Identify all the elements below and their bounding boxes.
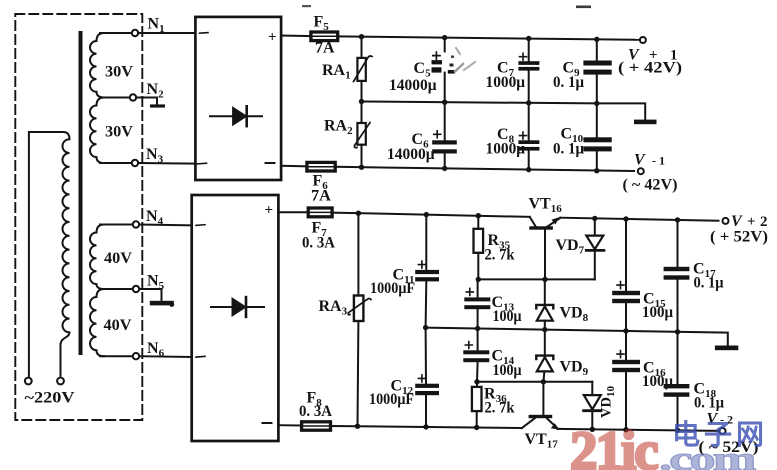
wire N4 tap bbox=[100, 224, 133, 226]
svg-text:1000μ: 1000μ bbox=[486, 74, 526, 91]
primary terminal b bbox=[57, 378, 64, 385]
fuse F7 bbox=[308, 208, 332, 217]
node bottom rail2 at C12 bbox=[423, 424, 428, 429]
wire top rail 2 right of VT16 bbox=[560, 218, 718, 221]
svg-text:40V: 40V bbox=[104, 317, 132, 334]
capacitor C17 bbox=[664, 220, 690, 332]
thermistor RA3 bbox=[348, 213, 371, 426]
wire UR1- to F6 bbox=[281, 165, 307, 168]
svg-text:VD9: VD9 bbox=[560, 359, 589, 379]
svg-text:+: + bbox=[265, 203, 274, 219]
output terminal V-1 bbox=[638, 168, 644, 174]
svg-text:0. 1μ: 0. 1μ bbox=[553, 74, 584, 91]
svg-text:- 1: - 1 bbox=[652, 154, 665, 168]
secondary winding N1-N2 (30V) bbox=[90, 33, 104, 98]
diode VD10 bbox=[584, 382, 601, 430]
node at R36/C14 bbox=[474, 379, 479, 384]
node bottom rail2 at C18 bbox=[675, 428, 680, 433]
bridge rectifier UR1 box bbox=[195, 17, 281, 180]
terminal N5 bbox=[133, 286, 139, 292]
svg-text:100μ: 100μ bbox=[493, 362, 522, 379]
stray dot artifact left of UR2 bbox=[169, 302, 174, 307]
wire top rail 2 left of VT16 bbox=[332, 213, 530, 217]
capacitor C13 bbox=[464, 279, 490, 328]
transformer core bbox=[79, 33, 83, 353]
svg-text:14000μ: 14000μ bbox=[389, 77, 437, 94]
capacitor C6 bbox=[432, 102, 457, 168]
node mid rail2 at C11/C12 bbox=[423, 325, 428, 330]
node at VT16 base bbox=[542, 277, 547, 282]
ground at N2 bbox=[150, 104, 165, 107]
ground of mid rail 2 bbox=[715, 346, 738, 351]
transistor VT16 bbox=[529, 217, 560, 279]
wire mid rail 1 bbox=[362, 102, 646, 120]
node bottom rail2 at C16 bbox=[623, 427, 628, 432]
svg-text:V: V bbox=[731, 213, 743, 230]
node top rail at C5 bbox=[442, 35, 447, 40]
svg-text:21ic: 21ic bbox=[570, 420, 658, 470]
diode VD8 (zener) bbox=[536, 279, 553, 329]
svg-text:30V: 30V bbox=[105, 64, 133, 81]
wire VT16 base node bbox=[478, 278, 595, 280]
capacitor C16 bbox=[612, 331, 640, 430]
primary winding bbox=[29, 132, 70, 378]
node bottom rail at C10 bbox=[594, 168, 599, 173]
capacitor C18 bbox=[664, 332, 690, 431]
node mid rail at C5/C6 bbox=[442, 100, 447, 105]
terminal N4 bbox=[133, 221, 139, 227]
node bottom rail at C8 bbox=[526, 167, 531, 172]
scan artifact dash top bbox=[576, 6, 591, 9]
node bottom rail at RA2 bbox=[359, 165, 364, 170]
transformer dashed enclosure bbox=[15, 14, 142, 420]
wire N2 to ground bbox=[136, 98, 157, 105]
wire N1 to bridge bbox=[138, 32, 195, 34]
svg-text:+: + bbox=[268, 30, 277, 46]
capacitor C9 bbox=[583, 39, 611, 103]
svg-text:30V: 30V bbox=[105, 124, 133, 141]
node top rail2 at R35 bbox=[476, 213, 481, 218]
node top rail at C9 bbox=[594, 37, 599, 42]
wire N4 to bridge bbox=[139, 224, 192, 227]
wire UR2- to F8 bbox=[278, 424, 301, 426]
svg-text:0. 1μ: 0. 1μ bbox=[553, 141, 584, 158]
node mid rail at RA junction bbox=[359, 99, 364, 104]
wire N6 to bridge bbox=[139, 355, 192, 358]
thermistor RA1 bbox=[354, 37, 373, 102]
svg-text:0. 3A: 0. 3A bbox=[299, 403, 332, 420]
svg-text:1000μF: 1000μF bbox=[369, 391, 414, 408]
UR2 diode symbol bbox=[211, 297, 264, 317]
node top rail2 at RA3 bbox=[356, 211, 361, 216]
terminal N1 bbox=[132, 30, 138, 36]
wire bottom rail 2 right of VT17 bbox=[558, 429, 720, 431]
scan artifact dash near F5 bbox=[302, 5, 311, 7]
node bottom rail2 at RA3 bbox=[355, 424, 360, 429]
svg-text:14000μ: 14000μ bbox=[387, 146, 435, 163]
thermistor RA2 bbox=[354, 102, 370, 168]
capacitor C8 bbox=[518, 103, 539, 170]
watermark .com bbox=[659, 439, 757, 470]
svg-text:( ~ 42V): ( ~ 42V) bbox=[623, 177, 678, 194]
secondary winding N4-N5 (40V) bbox=[90, 225, 104, 290]
node bottom rail at C6 bbox=[442, 166, 447, 171]
wire VT17 base node bbox=[477, 381, 592, 383]
node top rail2 at C17 bbox=[675, 217, 680, 222]
svg-text:7A: 7A bbox=[311, 188, 331, 205]
node top rail2 at C11 bbox=[424, 212, 429, 217]
transistor VT17 bbox=[522, 382, 559, 430]
node top rail2 at VD7 bbox=[592, 216, 597, 221]
wire mid rail 2 bbox=[426, 328, 728, 346]
scan smudge near C5 bbox=[448, 48, 475, 74]
terminal N6 bbox=[133, 353, 139, 359]
wire N5 to ground bbox=[139, 289, 161, 301]
capacitor C11 bbox=[415, 215, 439, 328]
node bottom rail2 at VD10 bbox=[590, 427, 595, 432]
fuse F5 bbox=[311, 32, 338, 41]
resistor R35 bbox=[474, 216, 484, 280]
node mid rail2 at VD8/VD9 bbox=[542, 327, 547, 332]
wire bottom rail 1 bbox=[335, 167, 634, 171]
wire N3 to bridge bbox=[138, 162, 195, 165]
capacitor C15 bbox=[612, 219, 640, 331]
svg-text:2. 7k: 2. 7k bbox=[485, 400, 515, 417]
wire N2 tap bbox=[100, 97, 130, 99]
svg-text:VT16: VT16 bbox=[529, 196, 563, 216]
svg-text:( + 52V): ( + 52V) bbox=[710, 229, 768, 246]
node mid rail2 at C15/C16 bbox=[623, 328, 628, 333]
terminal N2 bbox=[130, 94, 136, 100]
svg-text:VD7: VD7 bbox=[556, 237, 585, 257]
diode VD9 (zener) bbox=[536, 330, 553, 382]
UR1 ac tick top bbox=[200, 32, 209, 35]
node at R35/C13 bbox=[476, 277, 481, 282]
UR1 diode symbol bbox=[210, 106, 262, 126]
svg-text:RA2: RA2 bbox=[324, 118, 353, 138]
wire UR1+ to F5 bbox=[281, 35, 311, 38]
node mid rail at C7/C8 bbox=[526, 100, 531, 105]
node at VT17 base bbox=[541, 379, 546, 384]
capacitor C14 bbox=[463, 329, 489, 382]
svg-text:电子网: 电子网 bbox=[672, 419, 768, 451]
svg-text:F5: F5 bbox=[314, 14, 330, 34]
node top rail at C7 bbox=[526, 36, 531, 41]
svg-text:RA1: RA1 bbox=[322, 62, 351, 82]
diode VD7 bbox=[586, 218, 604, 279]
svg-text:( + 42V): ( + 42V) bbox=[618, 60, 682, 77]
capacitor C10 bbox=[583, 103, 611, 170]
node bottom rail2 at R36 bbox=[474, 425, 479, 430]
fuse F8 bbox=[302, 422, 331, 430]
svg-text:RA3: RA3 bbox=[319, 298, 348, 318]
svg-text:1000μF: 1000μF bbox=[370, 280, 415, 297]
wire top rail 1 bbox=[338, 36, 640, 39]
capacitor C7 bbox=[518, 39, 539, 103]
UR1 ac tick bottom bbox=[197, 162, 207, 165]
terminal N3 bbox=[132, 160, 138, 166]
node mid rail2 at C13/C14 bbox=[475, 326, 480, 331]
primary terminal a bbox=[25, 378, 32, 385]
UR1 minus label bbox=[266, 162, 275, 164]
svg-text:1000μ: 1000μ bbox=[486, 141, 526, 158]
wire N6 tap bbox=[100, 355, 133, 357]
svg-text:VT17: VT17 bbox=[525, 431, 559, 451]
UR2 minus label bbox=[263, 422, 272, 424]
svg-text:V: V bbox=[634, 152, 646, 169]
svg-text:VD10: VD10 bbox=[599, 386, 618, 418]
svg-text:40V: 40V bbox=[104, 250, 132, 267]
svg-text:0. 3A: 0. 3A bbox=[302, 235, 335, 252]
wire N1 tap bbox=[100, 32, 132, 34]
svg-text:100μ: 100μ bbox=[642, 304, 673, 321]
wire N5 tap bbox=[100, 288, 133, 290]
output terminal V-2 bbox=[720, 428, 726, 434]
secondary winding N2-N3 (30V) bbox=[90, 98, 104, 164]
wire bottom rail 2 left of VT17 bbox=[331, 426, 522, 428]
svg-text:7A: 7A bbox=[315, 40, 335, 57]
node top rail2 at C15 bbox=[623, 216, 628, 221]
wire UR2+ to F7 bbox=[278, 211, 308, 213]
secondary winding N5-N6 (40V) bbox=[90, 289, 104, 356]
output terminal V+2 bbox=[723, 218, 729, 224]
svg-text:~220V: ~220V bbox=[25, 390, 76, 407]
capacitor C12 bbox=[415, 328, 439, 427]
svg-text:2. 7k: 2. 7k bbox=[485, 247, 515, 264]
bridge rectifier UR2 box bbox=[192, 195, 279, 441]
svg-text:100μ: 100μ bbox=[493, 308, 522, 325]
svg-text:0. 1μ: 0. 1μ bbox=[694, 275, 724, 292]
ground of mid rail 1 bbox=[634, 120, 657, 125]
output terminal V+1 bbox=[640, 37, 646, 43]
svg-text:VD8: VD8 bbox=[560, 305, 589, 325]
svg-text:0. 1μ: 0. 1μ bbox=[694, 395, 724, 412]
resistor R36 bbox=[472, 382, 482, 428]
UR2 ac tick bottom bbox=[196, 355, 205, 358]
UR2 ac tick top bbox=[196, 224, 205, 227]
fuse F6 bbox=[307, 162, 335, 171]
ground at N5 bbox=[150, 301, 174, 306]
node mid rail at C9/C10 bbox=[594, 101, 599, 106]
wire N3 tap bbox=[100, 162, 132, 164]
capacitor C5 bbox=[432, 38, 445, 103]
node top rail at RA1 bbox=[359, 34, 364, 39]
node mid rail2 at C17/C18 bbox=[675, 329, 680, 334]
